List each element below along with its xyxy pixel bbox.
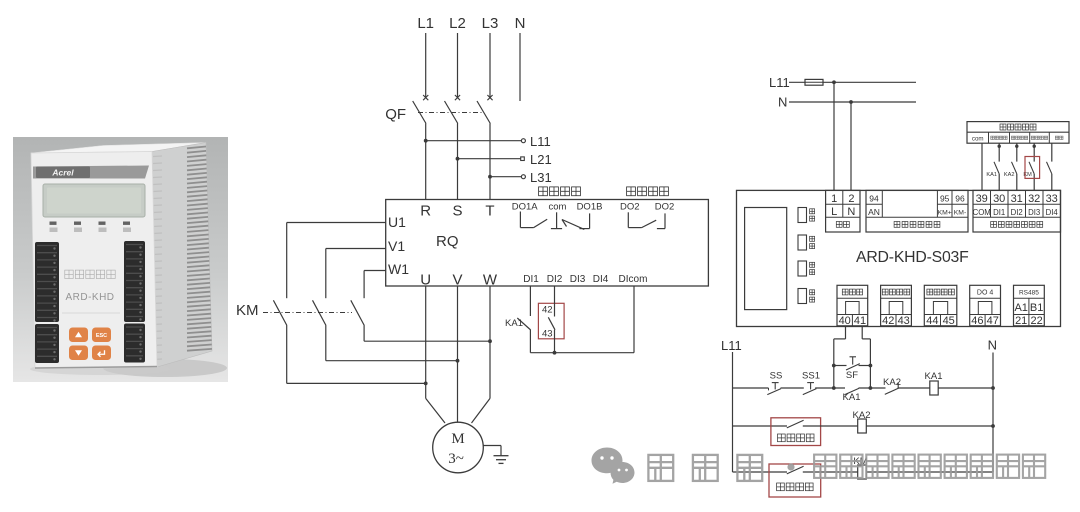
svg-text:45: 45 (943, 315, 955, 327)
svg-text:DI1: DI1 (523, 274, 539, 285)
svg-text:KA2: KA2 (853, 410, 871, 421)
svg-text:42: 42 (542, 304, 553, 315)
svg-text:31: 31 (1011, 193, 1023, 205)
svg-text:U1: U1 (388, 214, 406, 230)
svg-text:DI2: DI2 (547, 274, 563, 285)
svg-text:46: 46 (971, 315, 983, 327)
svg-text:R: R (420, 203, 431, 220)
svg-text:M: M (451, 431, 464, 447)
svg-text:DI3: DI3 (570, 274, 586, 285)
svg-text:W1: W1 (388, 261, 409, 277)
svg-text:V: V (452, 272, 462, 289)
svg-text:KM: KM (236, 302, 259, 319)
svg-text:AN: AN (868, 207, 880, 217)
svg-text:L: L (831, 206, 837, 218)
svg-text:1: 1 (831, 193, 837, 205)
svg-text:21: 21 (1015, 315, 1027, 327)
svg-text:DO 4: DO 4 (977, 289, 993, 296)
svg-text:V1: V1 (388, 238, 405, 254)
svg-text:30: 30 (993, 193, 1005, 205)
svg-text:DO1B: DO1B (577, 202, 603, 213)
svg-text:44: 44 (926, 315, 938, 327)
svg-text:DO2: DO2 (620, 202, 640, 213)
svg-text:DI4: DI4 (593, 274, 609, 285)
svg-text:L31: L31 (530, 170, 552, 185)
svg-text:RS485: RS485 (1019, 289, 1039, 296)
svg-text:N: N (988, 338, 997, 353)
svg-text:L11: L11 (721, 338, 742, 353)
svg-text:3~: 3~ (448, 451, 464, 467)
svg-text:com: com (972, 135, 984, 142)
svg-text:S: S (452, 203, 462, 220)
svg-text:KM-: KM- (954, 210, 966, 217)
svg-text:39: 39 (976, 193, 988, 205)
svg-text:DO2: DO2 (655, 202, 675, 213)
svg-text:DO1A: DO1A (512, 202, 539, 213)
svg-text:B1: B1 (1030, 302, 1043, 314)
svg-text:N: N (847, 206, 855, 218)
svg-text:com: com (549, 202, 567, 213)
svg-text:COM: COM (973, 208, 991, 217)
svg-text:2: 2 (848, 193, 854, 205)
svg-text:47: 47 (987, 315, 999, 327)
svg-text:40: 40 (839, 315, 851, 327)
svg-text:W: W (483, 272, 498, 289)
svg-text:32: 32 (1028, 193, 1040, 205)
svg-text:A1: A1 (1014, 302, 1027, 314)
svg-text:KM+: KM+ (938, 210, 952, 217)
svg-text:T: T (485, 203, 494, 220)
svg-text:ESC: ESC (96, 333, 107, 339)
svg-text:DI1: DI1 (993, 208, 1005, 217)
svg-text:L11: L11 (530, 134, 551, 149)
svg-text:41: 41 (854, 315, 866, 327)
svg-text:ARD-KHD: ARD-KHD (65, 292, 114, 303)
svg-text:DIcom: DIcom (619, 274, 648, 285)
svg-text:DI4: DI4 (1046, 208, 1059, 217)
svg-text:KA1: KA1 (505, 318, 523, 329)
svg-text:DI3: DI3 (1028, 208, 1040, 217)
svg-text:Acrel: Acrel (51, 168, 74, 178)
svg-text:95: 95 (940, 193, 950, 203)
svg-text:L1: L1 (417, 15, 434, 32)
svg-text:L11: L11 (769, 75, 790, 90)
svg-text:KA2: KA2 (1004, 172, 1015, 178)
svg-text:SF: SF (846, 370, 858, 381)
svg-text:L2: L2 (449, 15, 466, 32)
svg-text:N: N (778, 95, 787, 110)
svg-text:22: 22 (1030, 315, 1042, 327)
svg-text:L3: L3 (482, 15, 499, 32)
svg-text:L21: L21 (530, 152, 552, 167)
svg-text:SS1: SS1 (802, 370, 820, 381)
svg-text:42: 42 (882, 315, 894, 327)
svg-text:QF: QF (385, 106, 406, 123)
svg-text:U: U (420, 272, 431, 289)
svg-text:KA1: KA1 (925, 371, 943, 382)
svg-text:KA2: KA2 (883, 377, 901, 388)
svg-text:33: 33 (1046, 193, 1058, 205)
svg-text:KA1: KA1 (843, 392, 861, 403)
svg-text:43: 43 (542, 328, 553, 339)
svg-text:94: 94 (869, 193, 879, 203)
svg-text:DI2: DI2 (1011, 208, 1023, 217)
svg-text:SS: SS (770, 370, 783, 381)
svg-text:43: 43 (898, 315, 910, 327)
svg-text:N: N (515, 15, 526, 32)
svg-text:KA1: KA1 (986, 172, 997, 178)
svg-text:RQ: RQ (436, 233, 459, 250)
svg-text:ARD-KHD-S03F: ARD-KHD-S03F (856, 249, 969, 266)
svg-text:96: 96 (955, 193, 965, 203)
